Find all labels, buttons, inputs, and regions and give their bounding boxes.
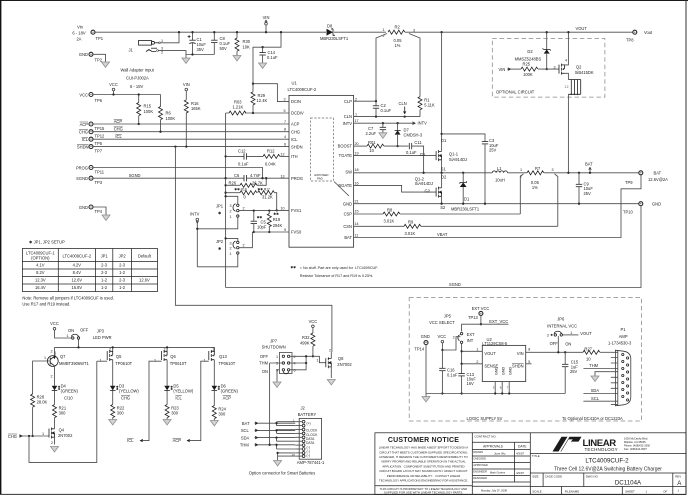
svg-text:3.01K: 3.01K <box>384 219 395 224</box>
resistor R17 <box>257 188 277 212</box>
svg-text:D8: D8 <box>327 24 333 29</box>
svg-text:8.4V: 8.4V <box>73 270 82 275</box>
connector P1 AMP 1-1734530-3 <box>608 327 632 406</box>
Q2 paralleled source pins <box>565 80 581 96</box>
svg-text:300: 300 <box>117 411 125 416</box>
svg-text:LTC4009CUF-2: LTC4009CUF-2 <box>585 458 629 465</box>
resistor R26 <box>224 177 267 187</box>
jumper JP6 INTERNAL VCC <box>547 316 592 353</box>
svg-text:J1: J1 <box>129 48 134 53</box>
svg-text:CLN: CLN <box>399 101 407 106</box>
svg-text:1: 1 <box>317 359 319 363</box>
svg-text:Wall Adapter Input: Wall Adapter Input <box>121 68 155 73</box>
svg-text:R25: R25 <box>523 62 531 67</box>
svg-text:R2: R2 <box>395 24 401 29</box>
svg-text:DWG NO: DWG NO <box>586 475 599 479</box>
svg-text:300: 300 <box>218 412 226 417</box>
test point TP5 ICL wire <box>82 137 103 146</box>
wire JP2 pin3 to sgnd <box>226 238 238 241</box>
svg-text:A: A <box>677 480 682 487</box>
J2 pin numbers and stubs <box>295 422 302 456</box>
svg-text:DCDIV: DCDIV <box>291 111 304 116</box>
test point TP11 PROG wire <box>76 165 105 174</box>
svg-text:VOUT: VOUT <box>580 331 592 336</box>
svg-text:2: 2 <box>213 348 215 352</box>
svg-text:Milpitas, CA 95035: Milpitas, CA 95035 <box>624 440 646 444</box>
test point TP1 Vin <box>72 25 103 42</box>
svg-text:INTERNAL VCC: INTERNAL VCC <box>547 323 577 328</box>
svg-text:INTV: INTV <box>418 121 428 126</box>
svg-text:18: 18 <box>355 168 359 172</box>
svg-text:TP10: TP10 <box>623 209 634 214</box>
svg-text:TP3: TP3 <box>95 180 103 185</box>
resistor R23 <box>163 405 179 426</box>
inductor L1 <box>492 166 507 183</box>
transistor Q5 TP0610T <box>97 346 133 386</box>
svg-text:LOGIC SUPPLY 5V: LOGIC SUPPLY 5V <box>467 416 503 421</box>
svg-text:1: 1 <box>646 489 648 493</box>
svg-text:G2: G2 <box>425 189 431 194</box>
svg-text:Q8: Q8 <box>338 356 344 361</box>
wire Q2 source to BAT rail <box>567 94 569 173</box>
svg-text:R32: R32 <box>302 335 310 340</box>
svg-text:3: 3 <box>547 334 549 338</box>
svg-text:CHG: CHG <box>114 127 123 132</box>
wire JP2 pin1 to INTV <box>197 254 238 267</box>
node VCC terminal logic <box>438 334 461 351</box>
svg-text:R9: R9 <box>408 220 414 225</box>
svg-text:TP0610T: TP0610T <box>115 361 132 366</box>
svg-text:OPTIONAL CIRCUIT: OPTIONAL CIRCUIT <box>496 90 535 95</box>
svg-text:To Optional DC410A or DC1223A: To Optional DC410A or DC1223A <box>562 416 623 421</box>
svg-text:5.11K: 5.11K <box>424 103 435 108</box>
svg-text:VIN: VIN <box>263 15 270 20</box>
svg-text:ACP: ACP <box>223 396 232 401</box>
node C8 top <box>213 31 215 33</box>
svg-text:2-3: 2-3 <box>119 262 126 267</box>
node VIN symbol <box>263 15 270 32</box>
note no-stuff <box>290 266 378 278</box>
svg-text:THM: THM <box>259 361 268 366</box>
svg-text:GND: GND <box>421 334 430 339</box>
diode D7 <box>395 122 423 147</box>
svg-text:1: 1 <box>100 359 102 363</box>
test point TP14 GND <box>414 334 429 394</box>
svg-text:S2: S2 <box>440 205 446 210</box>
svg-text:TGATE: TGATE <box>339 153 353 158</box>
svg-text:✱✱: ✱✱ <box>290 266 296 270</box>
svg-text:SW: SW <box>345 170 352 175</box>
svg-text:P1: P1 <box>621 327 627 332</box>
svg-text:CHG: CHG <box>291 129 300 134</box>
svg-text:25V: 25V <box>489 148 497 153</box>
svg-text:16: 16 <box>355 181 359 185</box>
svg-text:SGND: SGND <box>129 173 141 178</box>
svg-text:4.1V: 4.1V <box>36 262 45 267</box>
svg-text:35V: 35V <box>197 47 205 52</box>
wire DCIN branch <box>253 32 281 83</box>
svg-text:EXT VCC: EXT VCC <box>472 306 490 311</box>
svg-text:SGND: SGND <box>449 282 461 287</box>
svg-text:Vin: Vin <box>77 25 84 30</box>
dashed optional box <box>492 39 605 98</box>
wire JP5 INT to U2 VOUT <box>462 344 483 364</box>
svg-text:SDA: SDA <box>241 435 250 440</box>
svg-text:ICL: ICL <box>82 137 89 142</box>
node INTV terminal <box>190 212 200 267</box>
svg-text:LTC4009CUF-2: LTC4009CUF-2 <box>288 87 317 92</box>
wire J1 sleeve to ground <box>159 51 187 55</box>
svg-text:CONTRACT NO.: CONTRACT NO. <box>475 435 497 439</box>
wire JP2 pin2 to FVS0 <box>239 232 252 248</box>
node VCC terminal <box>109 82 118 96</box>
svg-text:4: 4 <box>284 135 286 139</box>
capacitor C3 <box>442 134 499 204</box>
approvals column <box>473 435 527 493</box>
wire rail D8 to R2 <box>334 31 386 33</box>
node J1 rail junction <box>178 31 180 33</box>
svg-text:CUSTOMER NOTICE: CUSTOMER NOTICE <box>388 437 459 444</box>
svg-text:FVS0: FVS0 <box>291 230 302 235</box>
wire BGATE jog <box>354 185 437 192</box>
wire TGATE <box>354 155 437 157</box>
svg-text:C11: C11 <box>414 140 422 145</box>
svg-text:TITLE: TITLE <box>532 454 540 458</box>
J2 pin circles <box>302 420 318 457</box>
svg-text:4.2V: 4.2V <box>73 262 82 267</box>
transistor Q7 MMBT3906WT1 <box>33 347 90 394</box>
transistor Q4 2N7002 <box>22 428 73 453</box>
resistor R32 <box>300 333 315 357</box>
svg-text:R12: R12 <box>267 148 275 153</box>
svg-text:0.1uF: 0.1uF <box>381 108 392 113</box>
svg-text:CHECKED: CHECKED <box>473 457 486 461</box>
svg-text:J2: J2 <box>301 405 306 410</box>
svg-text:0: 0 <box>244 195 247 200</box>
resistor R24 <box>210 406 226 427</box>
svg-text:10: 10 <box>369 148 374 153</box>
capacitor C6 on PROG <box>224 173 289 181</box>
test point TP4 GND <box>79 205 103 214</box>
svg-text:3: 3 <box>552 168 554 172</box>
jumper JP7 shutdown <box>259 339 295 374</box>
svg-text:TP15: TP15 <box>95 126 106 131</box>
capacitor C9 <box>576 172 594 205</box>
svg-text:D1: D1 <box>464 196 470 201</box>
svg-text:DC1104A: DC1104A <box>615 479 642 486</box>
svg-text:ICL: ICL <box>291 137 298 142</box>
svg-text:CHG: CHG <box>79 130 88 135</box>
resistor R19 <box>267 209 282 233</box>
logo Linear Technology <box>553 437 651 453</box>
svg-text:SHDN: SHDN <box>291 144 303 149</box>
svg-text:SHDN: SHDN <box>512 363 524 368</box>
svg-text:1,2: 1,2 <box>565 84 569 88</box>
svg-text:APPLICATION. COMPONENT SUBSTI: APPLICATION. COMPONENT SUBSTITUTION AND … <box>382 464 464 468</box>
svg-text:1: 1 <box>678 489 680 493</box>
svg-text:ENGINEER: ENGINEER <box>473 470 487 474</box>
svg-text:SIZE: SIZE <box>532 475 538 479</box>
svg-text:3.01K: 3.01K <box>405 231 416 236</box>
svg-text:Fax: (408)434-0507: Fax: (408)434-0507 <box>624 447 647 451</box>
resistor R15 <box>137 95 154 125</box>
svg-text:(-): (-) <box>307 454 310 458</box>
svg-text:VOUT: VOUT <box>576 26 588 31</box>
svg-text:LTC4009CUF-2: LTC4009CUF-2 <box>63 253 92 258</box>
wire SHDN long route to Q8 <box>175 147 332 353</box>
wire EXT_VCC <box>462 324 509 331</box>
svg-text:19: 19 <box>355 152 359 156</box>
svg-text:JP1: JP1 <box>216 204 224 209</box>
svg-text:2: 2 <box>51 375 53 379</box>
svg-text:3: 3 <box>284 97 286 101</box>
svg-text:VIN: VIN <box>499 67 506 72</box>
wire U2 VIN to JP6 <box>526 351 583 353</box>
ground at TP2 <box>102 62 110 68</box>
svg-text:(+): (+) <box>307 421 311 425</box>
svg-text:1-2: 1-2 <box>119 285 126 290</box>
svg-text:DRAWN: DRAWN <box>473 450 483 454</box>
svg-text:✱: ✱ <box>218 246 222 251</box>
svg-text:294K: 294K <box>273 223 283 228</box>
test point TP6 VCC <box>79 92 102 103</box>
svg-text:OFF: OFF <box>260 354 269 359</box>
svg-text:INT: INT <box>467 338 474 343</box>
ground input <box>185 55 187 59</box>
svg-text:Q2: Q2 <box>576 64 582 69</box>
svg-text:TP6: TP6 <box>95 98 103 103</box>
resistor R25 <box>510 65 559 71</box>
svg-text:REV: REV <box>675 475 681 479</box>
wire C1/C8 ground bus <box>186 54 214 56</box>
node R30 top <box>236 31 238 33</box>
switch JP3 LED PWR <box>55 327 112 340</box>
svg-text:3: 3 <box>230 204 232 208</box>
test point TP10 GND <box>623 202 661 215</box>
wire TP4 to ground <box>93 207 106 215</box>
svg-text:1: 1 <box>230 215 232 219</box>
svg-text:2N7002: 2N7002 <box>337 362 352 367</box>
wire R2 to VOUT rail <box>405 31 633 33</box>
svg-text:5: 5 <box>284 109 286 113</box>
svg-text:L1: L1 <box>497 166 502 171</box>
svg-text:1-2: 1-2 <box>119 270 126 275</box>
svg-text:Q1-1: Q1-1 <box>449 151 459 156</box>
node VCC terminal R32 <box>309 319 318 333</box>
node BAT arrow <box>585 162 593 174</box>
svg-text:TP8: TP8 <box>626 38 634 43</box>
svg-text:INTV: INTV <box>343 121 353 126</box>
sense resistor R2 <box>383 24 416 48</box>
wire R7 to TP9 BAT rail <box>544 172 639 174</box>
ground J2 <box>274 461 282 467</box>
op-amp U1 body <box>288 81 354 248</box>
svg-text:12.6V@2A: 12.6V@2A <box>648 177 668 182</box>
svg-text:GND: GND <box>343 201 352 206</box>
svg-text:GND: GND <box>79 52 88 57</box>
svg-text:31.2K: 31.2K <box>262 195 273 200</box>
svg-text:CUI-PJ002A: CUI-PJ002A <box>126 76 149 81</box>
svg-text:VOUT: VOUT <box>484 351 496 356</box>
svg-text:300: 300 <box>171 411 179 416</box>
svg-text:16V: 16V <box>467 381 475 386</box>
svg-text:ACP: ACP <box>114 119 123 124</box>
resistor R01 on BOOST <box>354 140 409 153</box>
U2 SHDN stub <box>526 363 532 365</box>
node Q1 drain rail <box>440 31 442 33</box>
LED D3 yellow <box>110 383 140 404</box>
svg-text:VCC: VCC <box>309 319 318 324</box>
svg-text:JP2: JP2 <box>216 239 224 244</box>
svg-text:CSN: CSN <box>343 224 352 229</box>
svg-text:CHG: CHG <box>121 396 130 401</box>
svg-text:165K: 165K <box>191 106 201 111</box>
LED D6 green <box>212 383 239 405</box>
svg-text:✱✱ R18: ✱✱ R18 <box>234 188 247 192</box>
svg-text:1-1734530-3: 1-1734530-3 <box>608 341 632 346</box>
svg-text:ON: ON <box>68 328 74 333</box>
svg-text:2: 2 <box>243 207 245 211</box>
capacitor C1 <box>188 32 207 54</box>
svg-text:SCALE: SCALE <box>532 489 542 493</box>
R7 kelvin CSN <box>555 174 558 227</box>
svg-text:(YELLOW): (YELLOW) <box>173 388 193 393</box>
svg-text:FVS1: FVS1 <box>291 208 302 213</box>
U1 left pin labels <box>291 99 304 235</box>
node SCL stub wire <box>241 428 295 433</box>
node INTV stub arrow <box>412 121 427 126</box>
svg-text:VCC: VCC <box>50 321 59 326</box>
svg-text:10: 10 <box>281 206 285 210</box>
svg-text:ICL: ICL <box>127 438 134 443</box>
svg-text:10pF: 10pF <box>257 225 267 230</box>
capacitor C13 <box>458 364 476 395</box>
resistor R21 <box>53 405 67 428</box>
test point TP8 Vout <box>626 30 653 43</box>
svg-text:TP4: TP4 <box>95 209 103 214</box>
svg-text:4.7nF: 4.7nF <box>250 173 261 178</box>
svg-text:ACP: ACP <box>80 122 89 127</box>
svg-text:APPROVALS: APPROVALS <box>483 445 504 449</box>
connector J2 battery <box>298 405 322 459</box>
svg-text:SUPPLIED FOR USE WITH LINEAR T: SUPPLIED FOR USE WITH LINEAR TECHNOLOGY … <box>384 491 463 495</box>
jumper JP2 <box>216 239 239 256</box>
svg-text:10uH: 10uH <box>495 178 505 183</box>
wire PGND line <box>354 203 639 205</box>
svg-text:U1: U1 <box>292 81 298 86</box>
svg-text:✱✱ R17: ✱✱ R17 <box>257 188 270 192</box>
svg-text:C5: C5 <box>261 219 267 224</box>
svg-text:Q7: Q7 <box>60 354 66 359</box>
svg-text:(GREEN): (GREEN) <box>221 388 239 393</box>
wire DCIN pin3 <box>253 84 289 102</box>
svg-text:VIN: VIN <box>183 82 190 87</box>
test point TP12 CHG wire <box>79 130 105 139</box>
node ACP stub <box>173 438 190 443</box>
svg-text:CHG: CHG <box>8 434 17 439</box>
svg-text:6 - 18V: 6 - 18V <box>72 31 85 36</box>
svg-text:1: 1 <box>570 331 572 335</box>
svg-text:1630 McCarthy Blvd.: 1630 McCarthy Blvd. <box>624 437 648 441</box>
svg-text:3: 3 <box>276 362 278 366</box>
svg-text:1-2: 1-2 <box>101 285 108 290</box>
svg-text:1: 1 <box>476 348 478 352</box>
svg-text:(GREEN): (GREEN) <box>61 388 79 393</box>
svg-text:SCL: SCL <box>591 396 600 401</box>
resistor R9 CSN <box>354 220 558 236</box>
svg-text:TP14: TP14 <box>414 347 425 352</box>
svg-text:(YELLOW): (YELLOW) <box>119 388 139 393</box>
svg-text:PAD: PAD <box>317 177 323 181</box>
svg-text:1.21K: 1.21K <box>233 105 244 110</box>
ground logic rail <box>422 397 430 403</box>
svg-text:THM: THM <box>589 363 598 368</box>
transistor Q8 2N7002 <box>313 349 352 386</box>
transistor Q13 TP0610T <box>190 347 236 440</box>
svg-text:R27: R27 <box>584 346 592 351</box>
svg-text:2: 2 <box>243 244 245 248</box>
U1 exposed pad <box>311 118 350 196</box>
svg-text:TP0610T: TP0610T <box>170 361 187 366</box>
svg-text:Vout: Vout <box>644 30 653 35</box>
svg-text:2: 2 <box>230 247 232 251</box>
svg-text:EXT: EXT <box>467 332 475 337</box>
svg-text:Q13: Q13 <box>219 354 227 359</box>
svg-text:PROG: PROG <box>291 176 303 181</box>
svg-text:BOOST: BOOST <box>338 144 353 149</box>
svg-text:BGATE: BGATE <box>338 183 352 188</box>
svg-text:17: 17 <box>355 119 359 123</box>
svg-text:1: 1 <box>44 356 46 360</box>
svg-text:0.1uF: 0.1uF <box>406 150 417 155</box>
svg-text:ACP: ACP <box>291 122 300 127</box>
wire VBAT <box>354 175 641 238</box>
svg-text:7: 7 <box>507 386 509 390</box>
svg-text:6 - 18V: 6 - 18V <box>130 84 143 89</box>
svg-text:20: 20 <box>355 142 359 146</box>
diode D8 <box>320 24 349 41</box>
svg-text:BATTERY: BATTERY <box>298 412 317 417</box>
resistor R1 <box>418 97 435 117</box>
test point TP9 BAT <box>625 171 668 186</box>
wire P1 ground pin <box>595 372 611 376</box>
R2 kelvin right to R1 <box>409 34 420 97</box>
svg-text:TP0610T: TP0610T <box>218 361 235 366</box>
svg-text:2: 2 <box>294 355 296 359</box>
svg-text:Mark Gurries: Mark Gurries <box>490 471 506 475</box>
svg-text:SHUTDOWN: SHUTDOWN <box>262 344 286 349</box>
svg-text:100K: 100K <box>523 72 533 77</box>
U2 ground pins <box>495 382 509 394</box>
svg-text:8: 8 <box>284 128 286 132</box>
svg-text:C/10: C/10 <box>64 396 73 401</box>
wire logic ground rail <box>426 393 565 395</box>
svg-text:TECHNOLOGY: TECHNOLOGY <box>585 447 618 452</box>
svg-text:VCC: VCC <box>438 334 447 339</box>
wire FVS0 <box>252 231 289 233</box>
svg-text:(OPTION): (OPTION) <box>31 256 50 261</box>
jumper JP5 VCC SELECT <box>429 314 475 344</box>
svg-text:11: 11 <box>355 233 359 237</box>
svg-text:SCL: SCL <box>241 428 250 433</box>
svg-text:1%: 1% <box>532 185 538 190</box>
svg-text:Use R17 and R19 instead.: Use R17 and R19 instead. <box>22 302 70 307</box>
svg-text:SDA: SDA <box>591 388 600 393</box>
svg-text:0.1uF: 0.1uF <box>447 373 458 378</box>
svg-text:6.04K: 6.04K <box>265 161 276 166</box>
svg-text:LED PWR: LED PWR <box>93 335 112 340</box>
svg-text:Three Cell 12.6V@2A Switching: Three Cell 12.6V@2A Switching Battery Ch… <box>554 467 662 473</box>
